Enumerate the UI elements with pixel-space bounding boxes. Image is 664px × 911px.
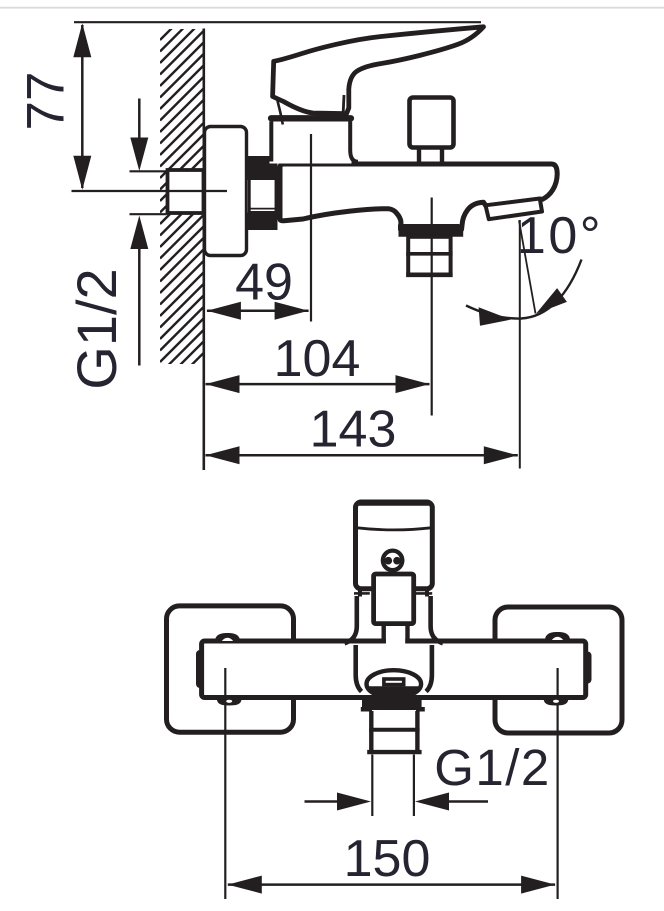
tub spout (front view) — [356, 645, 432, 712]
dimension 150 — [228, 830, 555, 894]
cartridge ring lines — [354, 592, 370, 595]
connection nut — [247, 156, 278, 230]
cartridge housing — [270, 118, 359, 163]
diverter knob (front view) — [374, 574, 414, 646]
10 degree arc dimension — [466, 207, 603, 326]
dimension 104 — [206, 330, 430, 393]
lever neck crease — [342, 95, 346, 113]
body bar (front view) — [202, 641, 586, 698]
lever handle (front view) — [356, 502, 433, 589]
diverter knob (side view) — [410, 98, 454, 163]
wall flange escutcheon — [205, 127, 247, 256]
page top gray rule — [0, 7, 664, 9]
left wall plate — [167, 606, 294, 732]
G1/2 inlet pipe in wall — [168, 170, 204, 213]
svg-text:143: 143 — [310, 401, 397, 459]
svg-text:10°: 10° — [517, 207, 603, 265]
right wall plate — [495, 607, 622, 733]
wall hatching — [160, 0, 204, 408]
handle crease line (front) — [357, 528, 431, 530]
shower outlet pipe (side) — [406, 237, 452, 275]
lever front-left contour crease — [277, 100, 283, 125]
svg-text:150: 150 — [344, 830, 431, 888]
spout 10 deg tilted line — [519, 221, 536, 314]
150 extension lines — [224, 668, 226, 899]
lever handle (side view) — [273, 27, 484, 114]
cartridge escutcheon (front) — [345, 596, 443, 643]
dimension 143 — [206, 401, 518, 465]
top extension line — [74, 21, 481, 23]
right union blob — [584, 652, 592, 684]
shower outlet axis extension line — [431, 198, 433, 416]
dimension 77 — [17, 23, 92, 189]
dimension 49 — [207, 254, 309, 320]
spout aerator — [486, 199, 543, 220]
shower outlet flare — [399, 224, 464, 237]
G1/2 inlet dimension arrows — [65, 99, 148, 390]
shower outlet pipe (front view) — [367, 710, 421, 752]
G1/2 outlet dimension — [305, 739, 551, 811]
cartridge collar ticks — [358, 591, 362, 597]
svg-text:77: 77 — [17, 72, 76, 131]
mixer body with spout (side view) — [280, 164, 557, 230]
svg-text:G1/2: G1/2 — [65, 268, 128, 389]
mounting domes — [215, 632, 570, 706]
inlet thread extension lines — [130, 170, 167, 172]
svg-text:49: 49 — [235, 254, 293, 312]
inlet centerline — [72, 190, 228, 192]
svg-text:G1/2: G1/2 — [434, 739, 551, 796]
brand logo dot — [381, 549, 405, 573]
spout tip extension line — [519, 220, 521, 469]
G1/2 outlet extension lines — [371, 755, 373, 817]
cartridge axis extension line — [310, 134, 312, 322]
cartridge cap band — [271, 115, 351, 121]
wall face line — [203, 29, 206, 471]
svg-text:104: 104 — [274, 330, 361, 388]
left union blob — [196, 650, 204, 688]
